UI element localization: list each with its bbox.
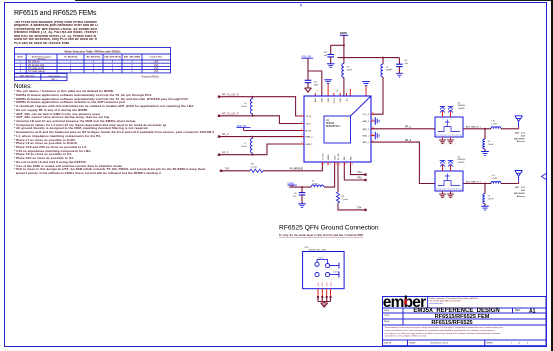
svg-text:GND: GND [330, 282, 332, 287]
svg-text:GND_1: GND_1 [362, 121, 370, 123]
svg-text:NC: NC [346, 97, 348, 100]
svg-text:1.8nH: 1.8nH [312, 184, 318, 186]
svg-text:31: 31 [317, 91, 319, 93]
svg-text:56pF: 56pF [314, 85, 319, 87]
svg-text:L2: L2 [386, 66, 389, 68]
svg-text:ENB_1: ENB_1 [306, 144, 314, 146]
svg-text:GND: GND [318, 282, 320, 287]
svg-text:R4: R4 [251, 164, 255, 166]
svg-text:RF6515/RF6525: RF6515/RF6525 [431, 320, 472, 326]
svg-text:L4: L4 [488, 141, 491, 143]
svg-text:ANT_1 50: ANT_1 50 [515, 132, 526, 135]
svg-text:PA2: PA2 [358, 177, 363, 180]
svg-text:C8: C8 [405, 60, 409, 62]
svg-text:1.8nH: 1.8nH [488, 144, 494, 146]
svg-text:RF_1: RF_1 [405, 126, 412, 129]
svg-text:RF6525 QFN Ground Connection: RF6525 QFN Ground Connection [279, 224, 379, 231]
svg-text:GND: GND [328, 97, 330, 102]
svg-text:RX LNA on: RX LNA on [28, 61, 40, 64]
svg-text:DATE:: DATE: [410, 342, 417, 345]
svg-text:1.8nH: 1.8nH [488, 199, 494, 201]
svg-text:ANT_SEL (PB6): ANT_SEL (PB6) [124, 56, 141, 59]
svg-text:This information is for the st: This information is for the structure of… [385, 326, 504, 329]
svg-text:U2: U2 [458, 102, 462, 104]
svg-text:RF_TX_ALT_N: RF_TX_ALT_N [222, 93, 239, 96]
svg-text:RF6525TR13: RF6525TR13 [326, 126, 341, 128]
svg-text:VCC2: VCC2 [334, 97, 336, 103]
svg-text:ANT1: ANT1 [51, 78, 57, 81]
svg-text:TITLE: TITLE [384, 315, 390, 317]
svg-text:6: 6 [301, 142, 302, 144]
svg-text:SIZE M: SIZE M [384, 343, 391, 345]
svg-text:ANT_1: ANT_1 [363, 128, 371, 131]
svg-text:Mode: Mode [17, 57, 23, 59]
svg-text:RX bypass LNA: RX bypass LNA [28, 64, 45, 67]
svg-text:2.2nH: 2.2nH [492, 124, 498, 126]
svg-text:22: 22 [329, 163, 331, 165]
svg-text:VBRD: VBRD [328, 154, 330, 160]
svg-text:21: 21 [323, 163, 325, 165]
svg-text:Tx6505: Tx6505 [458, 108, 466, 110]
svg-text:Control Pins: Control Pins [149, 56, 163, 59]
svg-text:26: 26 [352, 163, 354, 165]
svg-text:ANT/FEED: ANT/FEED [514, 192, 525, 195]
svg-text:1nF: 1nF [324, 55, 328, 57]
svg-text:16-09-2010_16:42: 16-09-2010_16:42 [430, 343, 449, 345]
svg-text:1uF: 1uF [405, 63, 409, 65]
svg-text:ANT/FEED: ANT/FEED [514, 137, 525, 140]
svg-text:TX_N: TX_N [306, 116, 312, 118]
svg-text:www.ember.com: www.ember.com [430, 303, 444, 305]
svg-text:1.4mm: 1.4mm [333, 271, 340, 273]
svg-text:PAGE: PAGE [384, 320, 390, 323]
svg-text:L6: L6 [244, 103, 247, 105]
svg-text:24: 24 [339, 163, 341, 165]
svg-text:RF6515: RF6515 [38, 59, 47, 61]
svg-text:U3: U3 [458, 156, 462, 158]
svg-text:6: 6 [527, 343, 529, 345]
svg-text:TX_EN (PC4): TX_EN (PC4) [64, 56, 78, 59]
svg-text:REV: REV [515, 308, 521, 312]
svg-text:ANT_2: ANT_2 [363, 141, 371, 144]
svg-text:3: 3 [301, 122, 302, 124]
svg-text:SHEET: SHEET [486, 343, 494, 345]
svg-text:structure are believed to be a: structure are believed to be at a time a… [385, 329, 495, 332]
svg-text:A1: A1 [529, 308, 536, 314]
svg-text:2: 2 [301, 114, 302, 116]
svg-text:PA1: PA1 [358, 171, 363, 174]
svg-text:1uF: 1uF [293, 196, 297, 198]
svg-text:Mode Selection Table: RF65xx: Mode Selection Table: RF65xx with EM35x [64, 50, 120, 54]
svg-text:ANT_MATCH_1: ANT_MATCH_1 [466, 126, 482, 129]
svg-text:ANT_MATCH_2: ANT_MATCH_2 [466, 180, 482, 183]
svg-text:RF_N: RF_N [222, 133, 229, 136]
svg-text:Antenna: Antenna [517, 195, 526, 198]
svg-text:LNA: LNA [154, 64, 159, 67]
svg-text:RXTX: RXTX [306, 131, 312, 133]
svg-text:2.2nH: 2.2nH [492, 178, 498, 180]
svg-text:Tx6505: Tx6505 [458, 162, 466, 164]
svg-text:L3: L3 [347, 66, 350, 68]
svg-text:VCC_1: VCC_1 [362, 114, 370, 116]
svg-text:ANT: ANT [314, 97, 317, 102]
svg-text:PA0: PA0 [349, 155, 352, 160]
svg-text:*Includes EM35x: *Includes EM35x [141, 76, 160, 79]
svg-text:LNA_BYP (PC5): LNA_BYP (PC5) [104, 56, 121, 59]
svg-text:LNA: LNA [154, 67, 159, 70]
svg-text:A13: A13 [521, 134, 526, 137]
svg-text:1: 1 [511, 343, 513, 345]
svg-text:to accordance, as a sufficient: to accordance, as a sufficient to supply… [385, 332, 500, 335]
svg-text:A13: A13 [521, 189, 526, 192]
svg-text:1uF: 1uF [389, 69, 393, 71]
svg-text:23: 23 [336, 163, 338, 165]
svg-text:RF6515: RF6515 [326, 123, 335, 125]
svg-text:GND: GND [335, 155, 337, 160]
svg-text:1_ohm: 1_ohm [342, 199, 349, 201]
svg-text:R5: R5 [342, 196, 346, 198]
svg-text:U1: U1 [326, 120, 330, 122]
svg-text:RF_TX_ALT_P: RF_TX_ALT_P [222, 112, 239, 115]
svg-text:ANT_SEL GPIO: ANT_SEL GPIO [20, 75, 35, 78]
svg-text:ANT_2 50: ANT_2 50 [515, 186, 526, 189]
svg-text:LNA: LNA [154, 61, 159, 64]
svg-text:of: of [518, 343, 520, 345]
svg-text:Antenna: Antenna [517, 140, 526, 143]
svg-text:LNA: LNA [154, 70, 159, 73]
svg-text:4: 4 [301, 129, 302, 131]
svg-text:RX_EN: RX_EN [338, 153, 340, 160]
svg-text:used within the screen validat: used within the screen validation of Emb… [385, 335, 428, 338]
svg-text:L10: L10 [492, 121, 496, 123]
svg-text:L11: L11 [492, 175, 496, 177]
svg-text:RF6505-: RF6505- [458, 105, 466, 107]
svg-text:TX_EN: TX_EN [322, 153, 324, 160]
svg-text:5.6nH: 5.6nH [241, 106, 247, 108]
svg-text:PA_BRIDGE: PA_BRIDGE [290, 167, 304, 170]
svg-text:GND: GND [340, 97, 342, 102]
svg-text:GND: GND [327, 282, 329, 287]
svg-text:Conn chosen: Conn chosen [48, 76, 60, 78]
svg-text:GND: GND [322, 282, 324, 287]
svg-text:C17: C17 [314, 82, 319, 84]
svg-text:C16: C16 [323, 52, 328, 54]
svg-text:28: 28 [336, 91, 338, 93]
svg-text:TX4: TX4 [357, 207, 362, 210]
svg-text:PA1: PA1 [343, 155, 346, 160]
svg-text:TX mode (sleep): TX mode (sleep) [28, 71, 45, 73]
svg-text:TX_P: TX_P [306, 124, 312, 126]
svg-text:VBRD: VBRD [340, 31, 347, 35]
svg-text:0_ohm: 0_ohm [251, 167, 258, 169]
svg-text:RF_2: RF_2 [405, 139, 412, 142]
svg-text:DWG: DWG [384, 310, 389, 312]
svg-text:To stay ICs the under layer to: To stay ICs the under layer to (IC) and … [279, 234, 363, 237]
svg-text:RF_P: RF_P [222, 151, 229, 154]
svg-text:GND_2: GND_2 [362, 136, 370, 138]
svg-text:L9: L9 [488, 196, 491, 198]
svg-text:RF6505-: RF6505- [458, 159, 466, 161]
svg-text:VDD: VDD [322, 97, 324, 102]
svg-text:ENB_2: ENB_2 [306, 137, 314, 139]
svg-text:L7: L7 [244, 143, 247, 145]
svg-text:RX_EN (PC5): RX_EN (PC5) [87, 57, 101, 59]
svg-text:5: 5 [301, 135, 302, 137]
svg-text:25: 25 [345, 163, 347, 165]
svg-text:TX mode on PA: TX mode on PA [28, 67, 45, 70]
svg-text:TX5: TX5 [225, 167, 230, 170]
svg-text:L5: L5 [312, 181, 315, 183]
svg-text:12: 12 [372, 112, 374, 114]
svg-text:5.6nH: 5.6nH [241, 146, 247, 148]
svg-text:56nH: 56nH [347, 69, 352, 71]
svg-text:C6: C6 [294, 193, 298, 195]
